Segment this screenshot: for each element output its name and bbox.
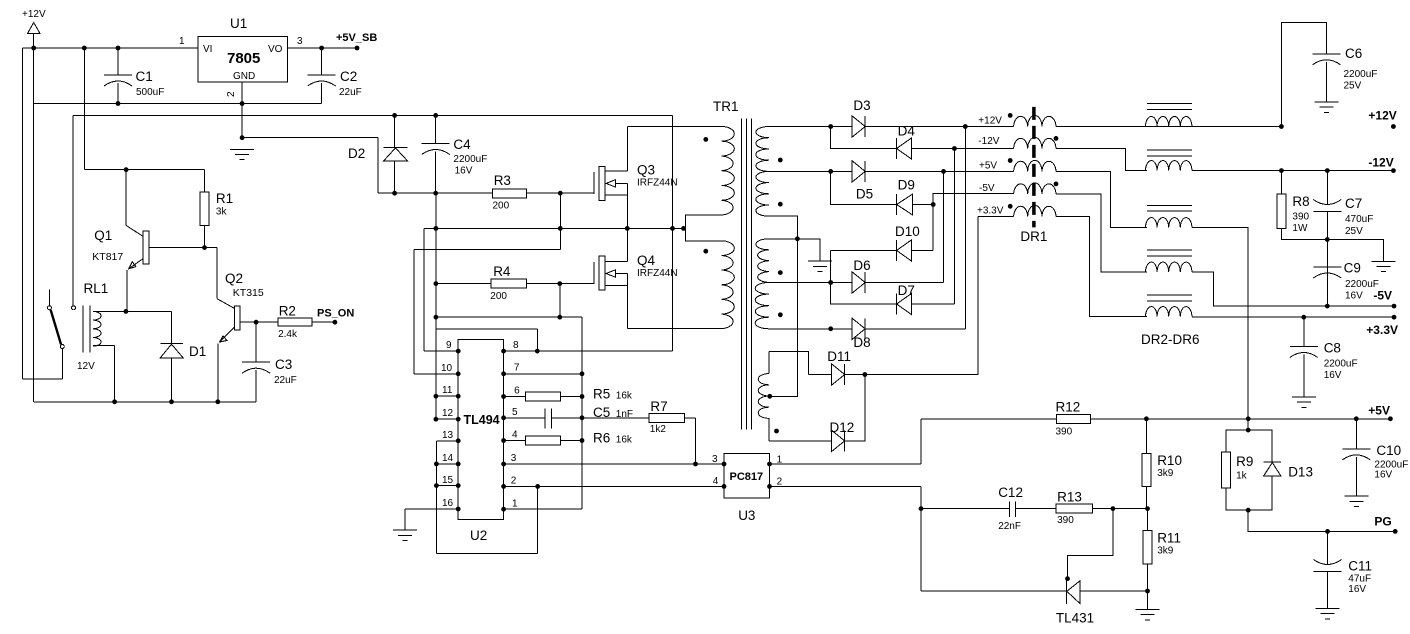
svg-text:R12: R12: [1056, 400, 1081, 415]
svg-text:IRFZ44N: IRFZ44N: [637, 268, 678, 279]
svg-text:1k2: 1k2: [650, 424, 667, 435]
svg-text:U1: U1: [230, 16, 247, 31]
svg-text:C3: C3: [275, 357, 292, 372]
svg-text:D2: D2: [348, 146, 365, 161]
svg-text:1: 1: [777, 455, 783, 466]
svg-text:2200uF: 2200uF: [453, 154, 487, 165]
svg-text:KT817: KT817: [92, 251, 123, 263]
svg-text:R4: R4: [493, 264, 511, 279]
svg-text:390: 390: [1056, 427, 1073, 438]
svg-text:47uF: 47uF: [1348, 574, 1371, 585]
svg-text:U2: U2: [470, 528, 487, 543]
svg-text:+12V: +12V: [22, 9, 46, 20]
svg-text:KT315: KT315: [233, 287, 264, 299]
svg-text:3k9: 3k9: [1157, 546, 1174, 557]
svg-text:R2: R2: [279, 304, 296, 319]
svg-text:16V: 16V: [1348, 584, 1366, 595]
svg-text:-12V: -12V: [1368, 156, 1393, 170]
svg-text:16: 16: [442, 498, 454, 509]
svg-text:+5V_SB: +5V_SB: [336, 32, 377, 44]
svg-text:R5: R5: [593, 387, 610, 402]
svg-text:2: 2: [777, 477, 783, 488]
svg-text:R3: R3: [494, 173, 511, 188]
svg-text:+5V: +5V: [979, 161, 997, 172]
svg-text:C12: C12: [998, 485, 1023, 500]
svg-text:D8: D8: [853, 335, 870, 350]
svg-text:16V: 16V: [455, 166, 473, 177]
svg-text:7805: 7805: [227, 50, 260, 67]
svg-text:4: 4: [512, 430, 518, 441]
svg-text:14: 14: [442, 453, 454, 464]
svg-text:TL431: TL431: [1056, 611, 1094, 626]
svg-text:2200uF: 2200uF: [1344, 69, 1378, 80]
svg-text:TL494: TL494: [464, 413, 500, 427]
svg-text:D6: D6: [853, 258, 870, 273]
svg-text:3k: 3k: [216, 207, 228, 218]
svg-text:C4: C4: [453, 137, 471, 152]
svg-text:2: 2: [511, 476, 517, 487]
svg-text:390: 390: [1057, 515, 1074, 526]
svg-text:15: 15: [442, 475, 454, 486]
svg-text:200: 200: [490, 291, 507, 302]
svg-text:+5V: +5V: [1368, 404, 1390, 418]
svg-text:16V: 16V: [1345, 291, 1363, 302]
svg-text:PG: PG: [1374, 515, 1391, 529]
svg-text:R1: R1: [216, 191, 233, 206]
svg-text:+12V: +12V: [978, 116, 1002, 127]
svg-text:PS_ON: PS_ON: [317, 308, 354, 320]
svg-text:D1: D1: [189, 344, 206, 359]
svg-text:2200uF: 2200uF: [1324, 359, 1358, 370]
svg-text:R10: R10: [1157, 453, 1182, 468]
svg-text:5: 5: [512, 407, 518, 418]
svg-text:RL1: RL1: [84, 281, 109, 296]
svg-text:R11: R11: [1157, 531, 1181, 546]
svg-text:R13: R13: [1057, 490, 1082, 505]
svg-text:12V: 12V: [77, 361, 95, 372]
svg-text:3: 3: [297, 36, 303, 47]
svg-text:C11: C11: [1348, 559, 1372, 574]
svg-text:16k: 16k: [616, 435, 633, 446]
svg-text:11: 11: [442, 385, 453, 396]
svg-text:16V: 16V: [1374, 470, 1392, 481]
svg-text:1W: 1W: [1292, 223, 1308, 234]
svg-text:2: 2: [226, 91, 237, 97]
svg-text:1: 1: [179, 36, 185, 47]
svg-text:IRFZ44N: IRFZ44N: [637, 178, 678, 189]
svg-text:-5V: -5V: [1373, 289, 1392, 303]
svg-text:U3: U3: [738, 508, 755, 523]
svg-text:PC817: PC817: [730, 471, 764, 483]
svg-text:C5: C5: [593, 405, 610, 420]
svg-text:3: 3: [712, 454, 718, 465]
svg-text:C6: C6: [1345, 46, 1362, 61]
svg-text:-5V: -5V: [979, 183, 995, 194]
svg-text:13: 13: [442, 430, 454, 441]
svg-text:C8: C8: [1324, 341, 1341, 356]
svg-text:Q1: Q1: [94, 228, 112, 243]
svg-text:R7: R7: [650, 399, 667, 414]
svg-text:12: 12: [442, 408, 454, 419]
svg-text:Q4: Q4: [637, 253, 656, 268]
svg-text:25V: 25V: [1345, 226, 1363, 237]
svg-text:25V: 25V: [1344, 81, 1362, 92]
svg-text:-12V: -12V: [978, 136, 999, 147]
svg-text:2.4k: 2.4k: [278, 329, 298, 340]
svg-text:16V: 16V: [1324, 370, 1342, 381]
svg-text:D13: D13: [1288, 465, 1313, 480]
svg-text:22uF: 22uF: [339, 87, 362, 98]
svg-text:8: 8: [513, 340, 519, 351]
svg-text:D4: D4: [898, 124, 916, 139]
svg-text:9: 9: [446, 340, 452, 351]
svg-text:6: 6: [514, 386, 520, 397]
svg-text:7: 7: [514, 363, 520, 374]
svg-text:390: 390: [1292, 212, 1309, 223]
svg-text:D3: D3: [853, 98, 870, 113]
svg-text:22nF: 22nF: [998, 521, 1021, 532]
svg-text:DR1: DR1: [1020, 229, 1047, 244]
svg-text:D7: D7: [898, 283, 915, 298]
svg-text:200: 200: [493, 201, 510, 212]
svg-text:D5: D5: [856, 187, 873, 202]
svg-text:+12V: +12V: [1368, 109, 1396, 123]
svg-text:C10: C10: [1376, 443, 1401, 458]
svg-text:3k9: 3k9: [1157, 468, 1174, 479]
svg-text:R6: R6: [593, 431, 610, 446]
svg-text:C9: C9: [1344, 261, 1361, 276]
svg-text:C2: C2: [340, 69, 357, 84]
svg-text:VO: VO: [268, 44, 283, 55]
svg-text:+3.3V: +3.3V: [1366, 323, 1398, 337]
svg-text:TR1: TR1: [713, 99, 739, 114]
svg-text:D9: D9: [898, 178, 915, 193]
svg-text:4: 4: [713, 476, 719, 487]
svg-text:R9: R9: [1236, 454, 1253, 469]
svg-text:1k: 1k: [1236, 471, 1248, 482]
svg-text:1: 1: [512, 499, 518, 510]
svg-text:22uF: 22uF: [274, 375, 297, 386]
svg-text:D11: D11: [827, 349, 851, 364]
svg-text:16k: 16k: [616, 391, 633, 402]
svg-text:VI: VI: [203, 44, 212, 55]
svg-text:R8: R8: [1292, 194, 1309, 209]
svg-text:10: 10: [441, 363, 453, 374]
svg-text:C7: C7: [1345, 196, 1362, 211]
svg-text:D12: D12: [830, 420, 855, 435]
svg-text:3: 3: [511, 453, 517, 464]
svg-text:+3.3V: +3.3V: [977, 206, 1004, 217]
svg-text:DR2-DR6: DR2-DR6: [1141, 332, 1200, 347]
svg-text:C1: C1: [136, 69, 153, 84]
svg-text:500uF: 500uF: [136, 87, 164, 98]
svg-text:470uF: 470uF: [1345, 214, 1373, 225]
svg-text:1nF: 1nF: [616, 409, 633, 420]
svg-text:Q2: Q2: [225, 271, 243, 286]
svg-text:Q3: Q3: [637, 163, 655, 178]
svg-text:D10: D10: [895, 224, 920, 239]
svg-text:GND: GND: [233, 71, 255, 82]
